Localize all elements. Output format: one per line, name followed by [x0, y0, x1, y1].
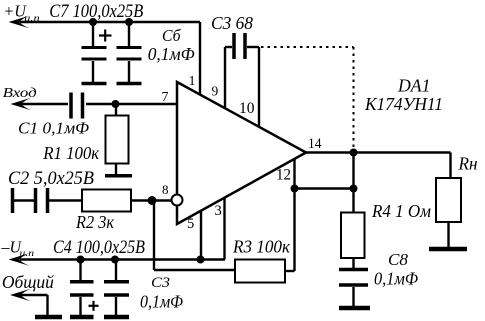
svg-text:R1 100к: R1 100к [42, 143, 100, 163]
svg-text:и.п: и.п [24, 14, 40, 24]
svg-text:Вход: Вход [3, 85, 37, 100]
svg-text:1: 1 [189, 74, 196, 89]
svg-text:С3 68: С3 68 [211, 13, 253, 33]
svg-text:12: 12 [276, 167, 291, 184]
svg-text:DA1: DA1 [397, 76, 430, 96]
svg-text:R3 100к: R3 100к [232, 237, 290, 257]
svg-text:С8: С8 [388, 250, 408, 269]
svg-text:7: 7 [162, 90, 169, 105]
svg-text:14: 14 [308, 136, 322, 152]
svg-text:0,1мФ: 0,1мФ [374, 269, 418, 289]
svg-text:и.п: и.п [20, 249, 35, 259]
svg-text:5: 5 [187, 216, 194, 232]
svg-text:Rн: Rн [458, 154, 478, 174]
svg-text:С3: С3 [151, 275, 170, 291]
svg-text:С7 100,0х25В: С7 100,0х25В [49, 2, 143, 22]
svg-text:R2 3к: R2 3к [75, 212, 114, 232]
svg-text:Сб: Сб [162, 26, 181, 45]
svg-text:С1 0,1мФ: С1 0,1мФ [18, 119, 89, 138]
svg-text:9: 9 [212, 84, 219, 99]
svg-text:8: 8 [162, 182, 169, 197]
svg-text:К174УН11: К174УН11 [364, 94, 443, 114]
svg-text:Общий: Общий [2, 272, 54, 292]
svg-text:3: 3 [215, 203, 222, 219]
svg-text:0,1мФ: 0,1мФ [148, 44, 195, 64]
svg-text:0,1мФ: 0,1мФ [140, 292, 183, 312]
svg-text:С4 100,0х25В: С4 100,0х25В [53, 238, 145, 258]
svg-text:R4 1 Ом: R4 1 Ом [371, 201, 431, 221]
svg-text:С2 5,0х25В: С2 5,0х25В [8, 169, 94, 189]
svg-text:10: 10 [239, 100, 255, 117]
